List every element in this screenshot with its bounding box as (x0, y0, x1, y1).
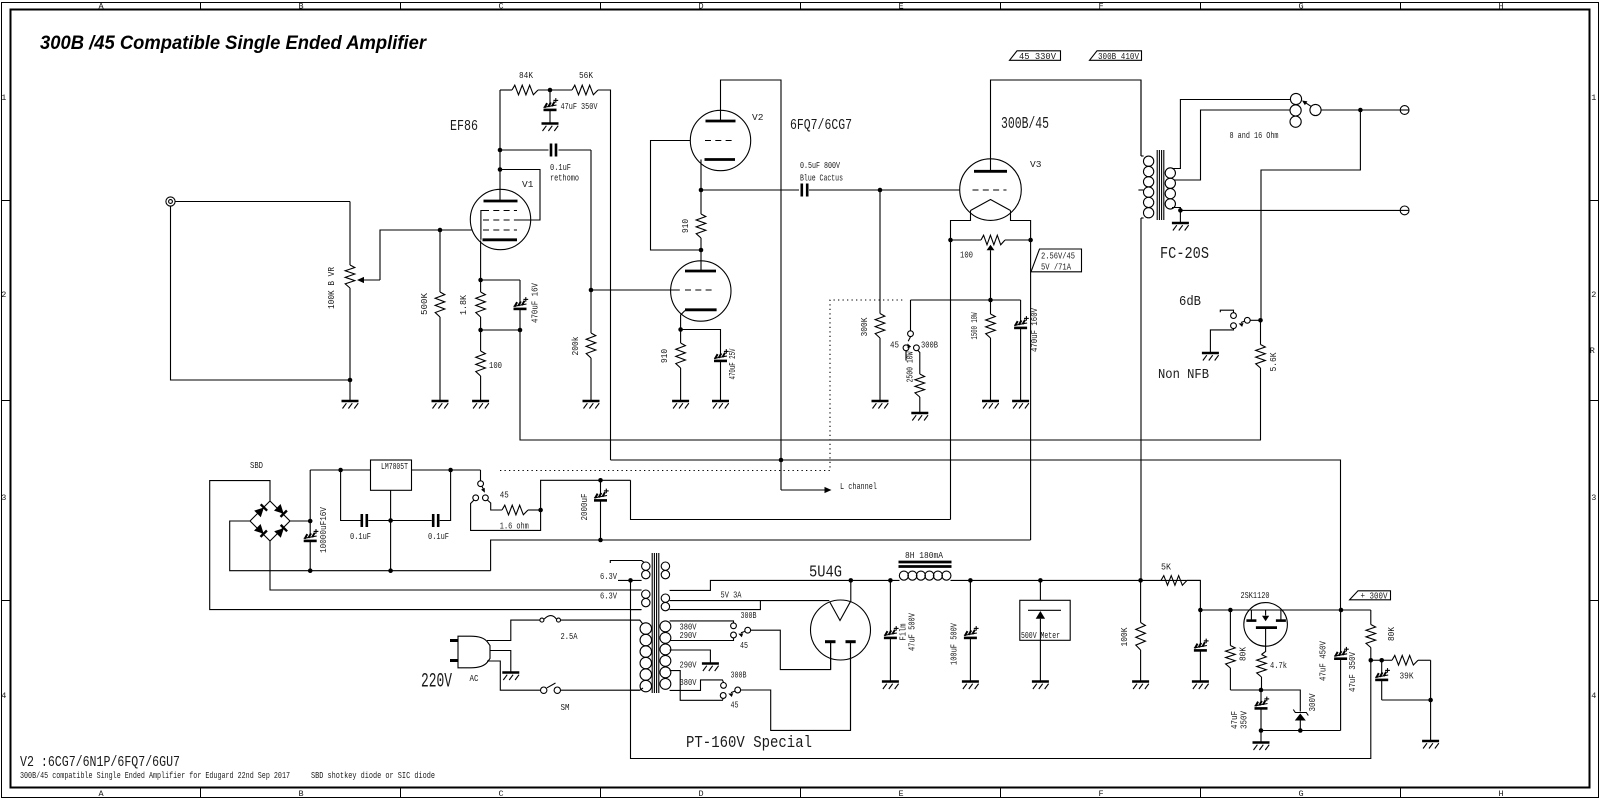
ground at 47uF (542, 124, 559, 132)
node meter tap (1038, 578, 1043, 583)
capacitor 0.5uF 800V Blue Cactus (701, 160, 843, 197)
wire filament left leg (951, 211, 971, 241)
capacitor 47uF 450V output (1318, 610, 1349, 731)
svg-text:E: E (898, 2, 903, 12)
svg-text:300B /45 Compatible Single End: 300B /45 Compatible Single Ended Amplifi… (40, 32, 427, 54)
svg-text:SBD shotkey diode or SIC diod: SBD shotkey diode or SIC diode (311, 771, 435, 781)
svg-text:910: 910 (659, 349, 670, 363)
svg-text:500K: 500K (419, 293, 430, 315)
svg-text:4.7k: 4.7k (1270, 660, 1287, 671)
wire bridge plus (290, 520, 310, 522)
svg-text:80K: 80K (1238, 647, 1249, 661)
terminal output plus (1400, 106, 1409, 115)
svg-text:C: C (498, 2, 503, 12)
svg-text:2.5A: 2.5A (561, 631, 578, 642)
svg-text:8 and 16 Ohm: 8 and 16 Ohm (1230, 130, 1279, 141)
node 100uF tap (968, 578, 973, 583)
ground at NFB switch (1202, 353, 1219, 361)
node 1.6 ohm output (538, 508, 543, 513)
svg-text:5.6K: 5.6K (1268, 352, 1279, 371)
resistor 5K dropper (1161, 562, 1187, 586)
node bleeder tap (1138, 578, 1143, 583)
switch 45/300B cathode (890, 331, 938, 351)
svg-text:rethomo: rethomo (550, 173, 579, 184)
wire 56K to B+ riser (598, 90, 611, 460)
wire filament right leg (1011, 211, 1031, 241)
wire to 45/300B cathode switch (910, 300, 912, 331)
wire DC+ rail (310, 469, 370, 471)
wire V2b grid (591, 289, 680, 291)
svg-text:100uF 500V: 100uF 500V (949, 623, 960, 665)
resistor 500K grid leak (419, 230, 445, 400)
wire lower selector to 5U4G plate (741, 643, 851, 730)
node 300B grid leak tap (878, 188, 883, 193)
svg-text:56K: 56K (579, 70, 593, 81)
svg-text:5V /71A: 5V /71A (1041, 262, 1071, 273)
resistor 2500 10W (905, 350, 925, 412)
wire 5V lower lead (670, 601, 761, 610)
svg-text:A: A (98, 789, 104, 799)
svg-text:3: 3 (1591, 493, 1596, 503)
resistor 4.7k source (1257, 655, 1288, 691)
wire filament left rail (950, 240, 952, 520)
bridge rectifier SBD (250, 501, 290, 541)
zener diode 300V (1293, 693, 1318, 730)
svg-text:5V 3A: 5V 3A (721, 590, 742, 601)
svg-text:84K: 84K (519, 70, 533, 81)
capacitor 47uF 350V gate (1229, 690, 1269, 731)
capacitor 470uF 160V cathode (1014, 300, 1040, 400)
node filament left (948, 238, 953, 243)
wire 290V upper tap (670, 638, 734, 641)
svg-text:3: 3 (1, 493, 6, 503)
wire 380V upper tap (670, 621, 734, 623)
svg-text:6.3V: 6.3V (600, 571, 617, 582)
svg-text:SM: SM (561, 702, 570, 713)
flag 300B 410V (1090, 51, 1142, 62)
ground at HV center tap (702, 664, 719, 672)
wire NFB takeoff (1261, 110, 1360, 320)
wire pot to ground (349, 288, 351, 380)
svg-text:100: 100 (960, 250, 973, 261)
wire V2 grid loop (651, 141, 702, 251)
svg-text:5U4G: 5U4G (809, 563, 842, 582)
ground at film cap (882, 682, 899, 690)
wire selector to output terminal (1321, 109, 1400, 111)
switch SM mains (541, 683, 570, 713)
callout 2.56V/45 5V/71A (1031, 249, 1082, 273)
node DC- at 0.1uF (388, 568, 393, 573)
wire V1 plate to 84K (500, 89, 512, 91)
ground at 39K (1422, 741, 1439, 749)
node 39K input (1379, 658, 1384, 663)
wire channel-link dotted (500, 300, 903, 471)
winding 6.3V A (610, 561, 650, 581)
svg-text:B: B (298, 789, 303, 799)
resistor 910 SRPP (680, 190, 706, 250)
wire regulator output (412, 469, 481, 471)
svg-text:1.6 ohm: 1.6 ohm (500, 521, 529, 532)
node V2b grid (589, 288, 594, 293)
svg-text:300B: 300B (741, 610, 757, 621)
svg-text:0.1uF: 0.1uF (550, 162, 571, 173)
svg-text:80K: 80K (1386, 627, 1397, 641)
wire B+ rail (848, 579, 900, 581)
ground at 100uF (962, 682, 979, 690)
node bridge plus (308, 519, 313, 524)
wire 290V lower tap (670, 671, 724, 701)
node filament right (1028, 238, 1033, 243)
svg-text:300K: 300K (859, 317, 870, 336)
tube 5U4G (811, 600, 871, 660)
transformer FC-20S core (1157, 150, 1164, 220)
node 910 bottom / V2b plate (699, 248, 704, 253)
wire bridge AC2 loop (270, 541, 641, 590)
flag 45 330V (1010, 51, 1061, 62)
node regulator output +300V (1339, 608, 1344, 613)
svg-text:E: E (898, 789, 903, 799)
node 6.3V tap (628, 578, 633, 583)
svg-text:F: F (1098, 2, 1103, 12)
resistor 5.6K NFB (1256, 320, 1279, 440)
wire zener return (1261, 730, 1341, 732)
svg-text:300B/45: 300B/45 (1001, 114, 1049, 133)
wire common to terminal (1180, 209, 1400, 211)
capacitor 470uF 16V cathode bypass (514, 280, 541, 330)
svg-text:500V Meter: 500V Meter (1021, 631, 1060, 641)
wire filament DC+ feed (541, 480, 631, 510)
wire coupling cap to V2b grid (590, 150, 592, 290)
wire cap to ground (1260, 731, 1262, 743)
wire node link (1371, 659, 1386, 661)
ground at 470uF 25V (712, 401, 729, 409)
wire switch to 1.6 ohm (487, 500, 502, 510)
capacitor 0.1uF input (350, 514, 371, 542)
ground at pot (342, 401, 359, 409)
svg-text:LM7805T: LM7805T (381, 462, 408, 472)
wire filament right rail (1030, 240, 1032, 540)
wire 45 stub open (905, 351, 907, 361)
svg-text:220V: 220V (421, 671, 452, 694)
node rectifier output (849, 578, 854, 583)
svg-text:2SK1120: 2SK1120 (1241, 590, 1270, 601)
svg-text:300B: 300B (731, 670, 747, 681)
svg-text:D: D (698, 789, 703, 799)
wire 5K to FET node (1187, 580, 1200, 610)
svg-text:PT-160V Special: PT-160V Special (686, 733, 812, 752)
svg-text:2.56V/45: 2.56V/45 (1041, 251, 1075, 262)
svg-text:200k: 200k (570, 336, 581, 355)
plug AC 220V (450, 636, 490, 684)
svg-text:100K: 100K (1119, 627, 1130, 646)
arrow L channel (825, 487, 832, 493)
transformer PT-160V core (652, 553, 659, 693)
svg-text:D: D (698, 2, 703, 12)
winding HV secondary (660, 621, 671, 689)
node 2000uF top (598, 478, 603, 483)
wire cathode network junction (481, 329, 520, 331)
node FET supply (1198, 608, 1203, 613)
wire to zener (1261, 690, 1300, 712)
svg-text:39K: 39K (1400, 670, 1414, 681)
svg-text:300B 410V: 300B 410V (1098, 52, 1140, 62)
wire filament plus rail (631, 480, 951, 519)
node V2 plate at B+ rail (779, 458, 784, 463)
switch 45/300B filament volts (473, 470, 509, 501)
wire plug to fuse (487, 620, 540, 640)
svg-text:47uF 450V: 47uF 450V (1318, 641, 1329, 681)
wire rail after choke (951, 579, 1201, 581)
svg-text:47uF 350V: 47uF 350V (1347, 652, 1358, 692)
svg-text:V3: V3 (1030, 159, 1042, 170)
svg-text:0.1uF: 0.1uF (350, 531, 371, 542)
wire plug chassis ground (490, 651, 511, 673)
svg-text:EF86: EF86 (450, 118, 478, 135)
ground at 47uF reservoir (1192, 682, 1209, 690)
switch NFB select (1231, 313, 1261, 329)
svg-text:SBD: SBD (250, 460, 263, 471)
wire FET gate rail (1200, 609, 1370, 611)
resistor 1.6 ohm (500, 505, 529, 531)
capacitor 0.1uF output (428, 514, 449, 542)
wire 1.6 ohm to node (528, 509, 541, 511)
wire 380V lower tap (670, 680, 724, 691)
wire 1.6 ohm bypass (471, 500, 541, 530)
resistor 100 cathode to ground (476, 330, 502, 400)
svg-text:470uF 160V: 470uF 160V (1029, 308, 1040, 352)
capacitor 0.1uF coupling (500, 144, 591, 184)
svg-text:V2 :6CG7/6N1P/6FQ7/6GU7: V2 :6CG7/6N1P/6FQ7/6GU7 (20, 755, 180, 771)
wire gnd pin to cap2 (391, 520, 432, 522)
node regulator ground pin (388, 518, 393, 523)
ground at OPT secondary (1172, 210, 1189, 230)
node cathode (478, 278, 483, 283)
capacitor 47uF 350V divider (1347, 652, 1390, 700)
wire HV center tap (670, 650, 711, 663)
node V2 cathode (699, 188, 704, 193)
winding primary 220V (630, 620, 652, 692)
node plate / coupling tap (498, 148, 503, 153)
node 10000uF bottom (308, 568, 313, 573)
svg-text:Blue Cactus: Blue Cactus (800, 173, 843, 184)
ground at 1500 10W (982, 401, 999, 409)
svg-text:10000uF16V: 10000uF16V (318, 507, 329, 553)
switch HV select upper (731, 610, 757, 651)
node 39K bottom (1428, 698, 1433, 703)
svg-text:300B: 300B (921, 340, 938, 351)
wire input to pot (175, 201, 350, 203)
tube V1 EF86 (470, 179, 533, 250)
switch HV select lower (720, 670, 746, 711)
svg-text:B: B (298, 2, 303, 12)
resistor 200k grid leak (570, 290, 596, 400)
node decoupling (548, 88, 553, 93)
wire filament return rail (491, 540, 1031, 571)
svg-text:AC: AC (470, 674, 479, 684)
svg-text:45: 45 (740, 640, 748, 651)
wire secondary common (1172, 208, 1180, 211)
tube V2b 6FQ7 lower (671, 261, 731, 321)
wire upper selector to 5U4G plate (751, 630, 831, 669)
svg-text:1500 10W: 1500 10W (969, 312, 980, 339)
svg-text:+ 300V: + 300V (1361, 591, 1388, 601)
resistor 39K (1386, 655, 1431, 681)
capacitor 47uF reservoir (1194, 610, 1209, 681)
wire bridge AC1 loop (210, 481, 641, 610)
wire NFB return to cathode node (520, 330, 1261, 440)
node pot bottom (348, 378, 353, 383)
node V1 grid junction (438, 228, 443, 233)
svg-text:0.1uF: 0.1uF (428, 531, 449, 542)
svg-text:F: F (1098, 789, 1103, 799)
resistor 100K bleeder (1119, 580, 1145, 681)
svg-text:100K B VR: 100K B VR (326, 267, 337, 309)
wire to ground (1430, 700, 1432, 741)
tube V3 300B (960, 159, 1042, 221)
svg-text:47uF 350V: 47uF 350V (561, 101, 598, 112)
capacitor Film 47uF 500V (884, 580, 918, 681)
ground at 100 (472, 401, 489, 409)
node 80K bottom (1369, 658, 1374, 663)
wire V2b cathode (681, 311, 685, 330)
wire V2 cathode (700, 160, 702, 191)
ground at 2500 10W (911, 413, 928, 421)
svg-text:8H 180mA: 8H 180mA (905, 550, 943, 561)
switch speaker impedance (1290, 93, 1321, 127)
resistor 1.8K cathode (458, 280, 485, 330)
transistor Q1 2SK1120 (1244, 603, 1288, 655)
wire right plate (850, 643, 852, 730)
svg-text:H: H (1498, 2, 1503, 12)
ground at 300K (872, 401, 889, 409)
potentiometer 100K B VR (326, 265, 380, 309)
wire fuse to primary (561, 619, 640, 621)
wire filament to B+ rail (850, 580, 852, 601)
svg-text:H: H (1498, 789, 1503, 799)
svg-text:G: G (1298, 2, 1303, 12)
wire to V2b plate (700, 250, 702, 271)
flag +300V (1350, 591, 1391, 602)
capacitor 100uF 500V (949, 580, 979, 681)
wire V2 plate to B+ (721, 80, 782, 490)
resistor 80K divider lower (1366, 610, 1397, 660)
wire bridge minus (230, 521, 491, 571)
node 80K top (1228, 608, 1233, 613)
wire 39K bottom loop (1382, 660, 1431, 700)
node output plus branch (1358, 108, 1363, 113)
meter 500V (1020, 580, 1070, 681)
svg-text:350V: 350V (1239, 711, 1250, 729)
resistor 300K grid leak (859, 190, 885, 400)
ground at 200k (583, 401, 600, 409)
ground at 470uF 160V (1012, 401, 1029, 409)
svg-text:100: 100 (489, 360, 502, 371)
wire cap to 300B grid (809, 189, 960, 191)
ground at meter (1032, 682, 1049, 690)
capacitor 2000uF (579, 480, 609, 540)
node NFB divider (1258, 318, 1263, 323)
choke 8H 180mA (899, 550, 952, 580)
svg-text:1.8K: 1.8K (458, 295, 469, 315)
ground at gate cap (1253, 743, 1270, 751)
wire 5V to B+ rail (670, 580, 848, 590)
svg-text:V2: V2 (752, 112, 764, 123)
node zener bottom (1298, 728, 1303, 733)
svg-text:6FQ7/6CG7: 6FQ7/6CG7 (790, 117, 852, 134)
wire V1 cathode (480, 241, 482, 281)
transformer FC-20S primary (1138, 80, 1153, 580)
svg-text:0.5uF 800V: 0.5uF 800V (800, 160, 840, 171)
svg-text:L channel: L channel (840, 481, 877, 492)
svg-text:1: 1 (1, 93, 6, 103)
wire hum pot wiper down (990, 250, 992, 300)
svg-text:45: 45 (731, 700, 739, 711)
svg-text:4: 4 (1, 691, 6, 701)
wire 84K-56K junction (538, 89, 572, 91)
node hum wiper / cathode node (988, 298, 993, 303)
wire 5V to filament (670, 600, 830, 602)
input jack J1 (166, 197, 175, 206)
svg-text:2000uF: 2000uF (579, 493, 590, 520)
wire V3 plate to OPT (991, 80, 1142, 171)
wire B+ rail to SRPP (611, 460, 1341, 610)
svg-text:5K: 5K (1161, 562, 1171, 573)
node source divider (1259, 688, 1264, 693)
svg-text:G: G (1298, 789, 1303, 799)
hum pot 100 (951, 235, 1031, 260)
node secondary common (1178, 208, 1183, 213)
svg-text:6.3V: 6.3V (600, 591, 617, 602)
ground at 500K (432, 401, 449, 409)
svg-text:6dB: 6dB (1179, 294, 1201, 310)
node gate cap bottom (1259, 728, 1264, 733)
wire g2 strap loop (500, 170, 540, 221)
winding 6.3V B (630, 590, 650, 610)
svg-text:470uF 16V: 470uF 16V (530, 283, 541, 323)
svg-text:FC-20S: FC-20S (1160, 244, 1209, 263)
resistor 1500 10W (969, 300, 995, 400)
wire V1 plate up (499, 90, 501, 201)
svg-text:4: 4 (1591, 691, 1596, 701)
wire cathode node rail (911, 299, 1021, 301)
wire 80K to source node (1230, 689, 1261, 691)
svg-text:290V: 290V (680, 659, 697, 670)
wire secondary 16 ohm tap (1172, 100, 1290, 169)
wire cap1 to gnd pin (368, 520, 390, 522)
resistor 56K (572, 70, 598, 95)
ground at 100K (1132, 682, 1149, 690)
terminal output minus (1400, 206, 1409, 215)
svg-text:1: 1 (1591, 93, 1596, 103)
ground at 910 (672, 401, 689, 409)
node 2000uF bottom (598, 538, 603, 543)
wire pot wiper to V1 grid (380, 230, 472, 280)
node regulator output (448, 468, 453, 473)
svg-text:45 330V: 45 330V (1019, 52, 1057, 62)
svg-text:290V: 290V (680, 630, 697, 641)
node V2b cathode (678, 327, 683, 332)
svg-text:2: 2 (1591, 290, 1596, 300)
wire cap2 to output (440, 470, 451, 521)
svg-text:45: 45 (500, 490, 509, 501)
resistor 910 V2b cathode (659, 330, 685, 401)
wire plug to switch SM (487, 661, 541, 690)
node plate / g2 tap (498, 167, 503, 172)
tube V2 6FQ7 upper (690, 110, 763, 170)
svg-text:470uF 25V: 470uF 25V (727, 348, 738, 379)
wire NFB ground contact (1210, 329, 1233, 352)
ground at plug (502, 673, 519, 681)
